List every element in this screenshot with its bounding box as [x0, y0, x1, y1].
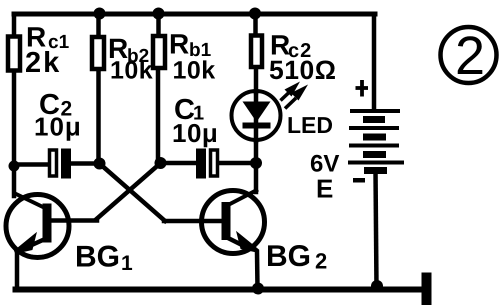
BG1 emitter line — [24, 239, 45, 249]
BG1 emitter arrow — [15, 237, 34, 253]
battery plate long 2 — [349, 126, 399, 130]
transistor BG2 — [202, 190, 265, 254]
battery plate long 4 — [348, 161, 404, 165]
wire C2 to node — [71, 161, 99, 166]
resistor Rb1 — [153, 36, 165, 68]
wire battery bottom — [376, 171, 377, 287]
BG2 collector line — [228, 190, 258, 206]
svg-text:LED: LED — [287, 112, 333, 138]
svg-text:10k: 10k — [110, 57, 153, 85]
terminal bar bottom right — [422, 273, 432, 305]
battery E — [348, 111, 404, 171]
node junction dot battery on rail — [371, 280, 383, 292]
svg-text:2: 2 — [455, 26, 485, 86]
BG1 base bar — [43, 204, 52, 243]
wire Rc1 bottom lead — [12, 72, 17, 196]
wire BG2 emitter down — [255, 252, 260, 288]
wire top rail — [14, 12, 375, 17]
wire BG1 base lead — [48, 218, 97, 223]
wire Rc2 top lead — [253, 14, 258, 35]
node junction dot A (Rb2/C2/BG2 base) — [94, 158, 106, 170]
battery plate long 3 — [349, 144, 399, 148]
battery plate short 1 — [363, 116, 385, 123]
wire bottom rail — [16, 287, 426, 293]
LED light arrow 2 — [285, 85, 308, 109]
wire Rb2 top lead — [96, 14, 101, 36]
node junction dot top Rc2 — [249, 8, 261, 20]
node junction dot BG2 emitter on rail — [252, 283, 264, 295]
resistor Rc1 — [8, 37, 20, 71]
wire Rb2 bottom lead — [96, 71, 101, 163]
wire LED to BG2 collector — [254, 141, 259, 192]
wire Rc2 to LED — [254, 69, 259, 92]
wire C2 left branch — [14, 162, 49, 167]
wire BG2 base lead — [164, 219, 224, 224]
battery minus sign — [353, 178, 365, 183]
svg-text:E: E — [316, 174, 333, 204]
node junction dot B (Rb1/C1/BG1 base) — [155, 157, 167, 169]
LED light arrow 1 — [281, 82, 301, 101]
wire Rb1 top lead — [156, 14, 161, 35]
capacitor C1 — [196, 149, 218, 179]
BG1 collector line — [14, 193, 45, 208]
wire LED vertical — [254, 92, 259, 141]
node junction dot C2 branch — [9, 161, 20, 172]
wire Rb1 bottom lead — [156, 70, 161, 162]
LED D1 — [232, 91, 281, 140]
battery plate short 4 — [364, 167, 387, 174]
BG2 emitter arrow — [239, 236, 258, 252]
wire right drop to battery — [372, 14, 377, 110]
wire node B1 to C1 — [160, 161, 196, 166]
node A junction dot top Rb2 — [94, 8, 106, 20]
wire BG1 emitter down — [15, 250, 20, 288]
battery plus sign — [356, 80, 369, 97]
svg-text:2: 2 — [315, 249, 327, 274]
wire C1 to node D — [219, 161, 256, 166]
BG2 base bar — [222, 202, 231, 240]
node junction dot D (C1/LED/BG2 collector) — [250, 157, 262, 169]
node junction dot top Rb1 — [153, 8, 165, 20]
transistor BG1 — [6, 193, 69, 258]
svg-text:10μ: 10μ — [172, 118, 218, 148]
svg-text:BG: BG — [75, 241, 120, 274]
svg-text:510Ω: 510Ω — [269, 55, 336, 85]
svg-text:1: 1 — [121, 252, 133, 275]
figure number circled 2 — [441, 26, 497, 86]
capacitor C2 — [50, 149, 72, 179]
svg-text:10k: 10k — [173, 57, 216, 85]
resistor Rb2 — [92, 37, 104, 69]
battery plate short 2 — [363, 134, 386, 141]
svg-text:2k: 2k — [25, 47, 61, 79]
battery plate short 3 — [363, 151, 386, 158]
svg-text:BG: BG — [266, 240, 311, 273]
wire diagonal node B to BG1 base — [96, 164, 160, 220]
battery plate long 1 — [350, 109, 400, 113]
svg-text:10μ: 10μ — [34, 112, 82, 142]
BG2 emitter line — [228, 238, 248, 248]
wire diagonal node A to BG2 base — [100, 164, 165, 221]
wire left drop upper — [12, 14, 17, 36]
svg-text:R: R — [169, 29, 189, 60]
resistor Rc2 — [251, 36, 262, 68]
